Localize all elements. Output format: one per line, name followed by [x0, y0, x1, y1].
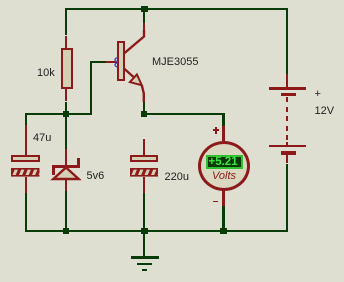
wire emitter node horizontal — [143, 113, 225, 115]
wire base horizontal — [90, 61, 106, 63]
wire left vertical to R1 top — [65, 8, 67, 36]
battery BT1 value 12V — [315, 106, 335, 117]
capacitor C2 pin top — [143, 139, 145, 155]
ground bar2 — [137, 263, 152, 265]
capacitor C1 pin bottom — [25, 177, 27, 193]
battery BT1 cell1 long plate — [269, 87, 306, 89]
transistor Q1 emitter diagonal and arrow — [118, 64, 148, 104]
node junction collector-top — [141, 6, 148, 13]
voltmeter minus pin — [222, 190, 224, 206]
ground bar3 — [142, 269, 147, 271]
battery BT1 dashed link — [286, 97, 288, 102]
resistor R1 value 10k — [37, 68, 55, 79]
wire base riser — [90, 61, 92, 115]
wire battery top — [286, 8, 288, 74]
wire zener bottom stub — [65, 191, 67, 230]
node junction ground — [141, 228, 148, 235]
node junction zener-bottom — [63, 228, 70, 235]
transistor Q1 base pin blue marks — [113, 57, 120, 68]
voltmeter Volts label — [211, 171, 237, 181]
wire C1 bottom stub — [25, 193, 27, 232]
capacitor C1 top plate — [11, 155, 40, 162]
wire C1 top stub — [25, 113, 27, 126]
wire R1 bottom to node — [65, 102, 67, 116]
wire ground stub — [143, 231, 145, 258]
zener D1 triangle — [50, 165, 82, 183]
wire left horizontal node — [25, 113, 92, 115]
capacitor C1 value 47u — [33, 133, 51, 144]
wire bottom rail — [25, 230, 288, 232]
transistor Q1 collector vertical — [143, 23, 145, 37]
node junction R1-base — [63, 111, 70, 118]
ground bar1 — [131, 256, 159, 258]
capacitor C2 pin bottom — [143, 177, 145, 193]
battery BT1 cell1 short plate — [281, 93, 295, 96]
zener D1 cathode bar — [52, 165, 79, 167]
capacitor C2 top plate — [130, 155, 159, 162]
transistor Q1 label MJE3055 — [152, 57, 198, 68]
battery BT1 pin bottom — [286, 155, 288, 164]
wire emitter bottom — [143, 102, 145, 115]
resistor R1 body — [61, 48, 73, 90]
wire voltmeter plus stub — [222, 113, 224, 127]
voltmeter body circle — [198, 141, 250, 191]
wire battery bottom — [286, 164, 288, 233]
wire voltmeter minus stub — [222, 206, 224, 232]
resistor R1 pin bottom — [65, 89, 67, 101]
battery BT1 pin top — [286, 74, 288, 89]
zener D1 value 5v6 — [87, 171, 105, 182]
battery BT1 plus label — [315, 89, 321, 100]
zener D1 pin top — [65, 149, 67, 167]
transistor Q1 base pin — [106, 61, 117, 63]
voltmeter minus sign — [213, 201, 219, 203]
capacitor C2 bottom plate hatched — [130, 168, 159, 177]
zener D1 left hook — [52, 168, 54, 175]
zener D1 pin bottom — [65, 179, 67, 191]
voltmeter display — [206, 155, 243, 170]
zener D1 right hook — [77, 158, 79, 165]
wire top rail — [65, 8, 288, 10]
battery BT1 cell2 long plate — [269, 145, 306, 147]
resistor R1 pin top — [65, 36, 67, 48]
capacitor C1 bottom plate hatched — [11, 168, 40, 177]
wire C2 bottom stub — [143, 193, 145, 232]
node junction emitter — [141, 111, 148, 118]
transistor Q1 bar — [117, 41, 125, 81]
voltmeter plus sign — [213, 129, 219, 131]
battery BT1 cell2 short plate — [281, 151, 295, 154]
wire zener top stub — [65, 115, 67, 149]
wire collector top — [143, 8, 145, 24]
capacitor C1 pin top — [25, 125, 27, 155]
voltmeter plus pin — [222, 126, 224, 141]
node junction voltmeter-bottom — [220, 228, 227, 235]
capacitor C2 value 220u — [165, 172, 189, 183]
transistor Q1 collector diagonal — [120, 30, 150, 58]
